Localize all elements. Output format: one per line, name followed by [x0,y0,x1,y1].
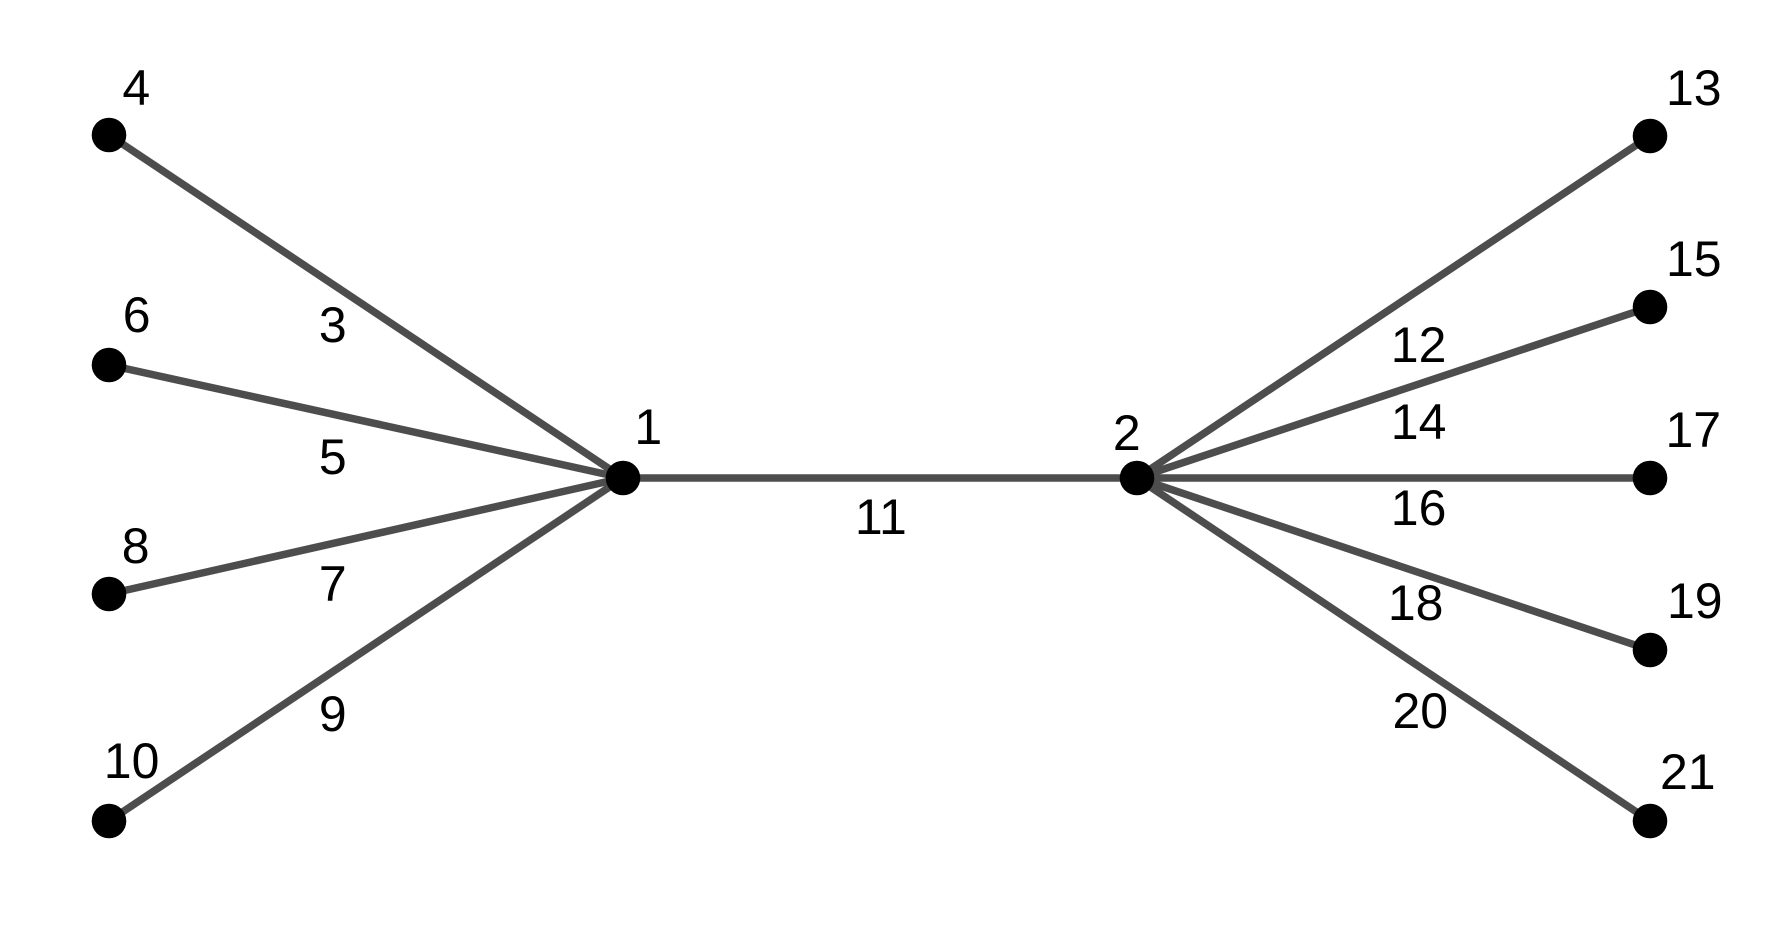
svg-text:3: 3 [319,297,347,353]
svg-text:17: 17 [1665,402,1721,458]
svg-text:21: 21 [1660,744,1716,800]
svg-text:19: 19 [1667,573,1723,629]
svg-text:18: 18 [1388,575,1444,631]
svg-text:7: 7 [319,556,347,612]
svg-text:6: 6 [123,287,151,343]
svg-text:1: 1 [634,399,662,455]
svg-text:20: 20 [1392,683,1448,739]
svg-text:11: 11 [855,489,907,545]
svg-text:10: 10 [104,733,160,789]
svg-text:16: 16 [1391,480,1447,536]
svg-text:12: 12 [1391,317,1447,373]
svg-text:9: 9 [319,686,347,742]
svg-text:5: 5 [319,429,347,485]
svg-text:4: 4 [122,60,150,116]
svg-text:13: 13 [1666,60,1722,116]
svg-text:14: 14 [1391,394,1447,450]
svg-text:2: 2 [1113,405,1141,461]
svg-text:8: 8 [122,518,150,574]
svg-text:15: 15 [1666,231,1722,287]
